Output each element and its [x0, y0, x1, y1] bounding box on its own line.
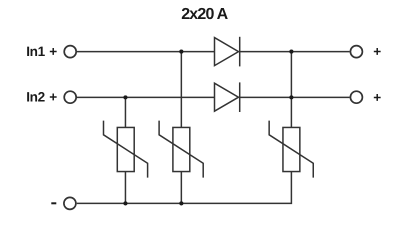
- wire D2 cathode to output 2: [240, 96, 350, 98]
- svg-text:+: +: [49, 44, 57, 59]
- wire bottom minus rail: [77, 172, 292, 204]
- svg-text:+: +: [49, 89, 57, 104]
- terminal output 1 circle: [350, 46, 362, 58]
- node In2 varistor R1 junction: [123, 95, 127, 99]
- diode D1: [215, 37, 240, 67]
- terminal minus circle: [64, 197, 76, 209]
- svg-text:+: +: [373, 44, 381, 59]
- svg-text:+: +: [373, 90, 381, 105]
- node output rail junction 2: [289, 95, 293, 99]
- varistor R1: [104, 121, 148, 178]
- wire left rail In1 to varistor R2: [180, 52, 182, 128]
- terminal minus label: [51, 202, 56, 204]
- terminal In2+ circle: [64, 91, 76, 103]
- varistor R2: [159, 121, 203, 178]
- wire varistor R2 bottom lead: [180, 172, 182, 204]
- diode D2: [215, 82, 240, 112]
- terminal In1+ circle: [64, 46, 76, 58]
- node minus rail varistor R2 junction: [179, 201, 183, 205]
- node In1 left rail junction: [179, 50, 183, 54]
- svg-text:In1: In1: [26, 44, 45, 59]
- wire varistor R1 bottom lead: [124, 172, 126, 204]
- wire In1 horizontal: [77, 51, 215, 53]
- wire In2 horizontal: [77, 96, 215, 98]
- wire D1 cathode to output 1: [240, 51, 350, 53]
- svg-text:In2: In2: [26, 89, 45, 104]
- svg-text:2x20 A: 2x20 A: [181, 6, 228, 23]
- varistor R3: [269, 121, 313, 178]
- terminal output 2 circle: [350, 91, 362, 103]
- wire varistor R1 top lead: [124, 97, 126, 127]
- node minus rail varistor R1 junction: [123, 201, 127, 205]
- wire right rail outputs to varistor R3: [290, 52, 292, 128]
- node output rail junction 1: [289, 50, 293, 54]
